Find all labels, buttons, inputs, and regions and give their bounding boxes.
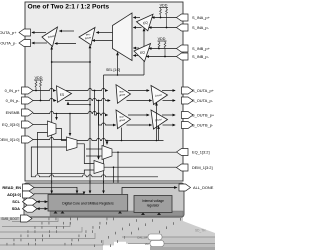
wires pre-driver A to driver A — [128, 90, 149, 92]
svg-text:S_OUTB_p-: S_OUTB_p- — [192, 123, 214, 128]
mux C — [102, 146, 112, 160]
svg-text:SCL: SCL — [12, 199, 20, 204]
shared register line loop (mux A + mux D lower inputs) — [37, 133, 94, 174]
driver A (points right) — [151, 86, 168, 105]
pre-driver (top, points left) — [79, 28, 95, 46]
driver outputs to OUTA pins — [32, 32, 46, 34]
mux B input — [33, 138, 67, 140]
regulator arrows up — [141, 212, 145, 215]
pin SDA (bidirectional hexagon) — [23, 205, 38, 212]
svg-text:SMB_BOOT: SMB_BOOT — [1, 217, 19, 221]
pin READ_EN — [23, 184, 35, 191]
mux B output routing to mux D — [77, 144, 94, 164]
pin AD[3:0] — [23, 191, 35, 198]
svg-text:OUTA_p-: OUTA_p- — [0, 41, 17, 46]
wires pre-driver to driver — [60, 30, 75, 32]
svg-text:Vin: Vin — [145, 242, 150, 246]
svg-text:regulator: regulator — [147, 204, 161, 208]
ALL_DONE wire — [122, 188, 177, 195]
mux outputs to pre-driver — [97, 32, 113, 34]
ghost tick trails — [7, 218, 181, 247]
mux select wire — [117, 53, 119, 75]
pin S_INB_p- — [177, 53, 189, 60]
pre-driver A (mid top, points right) — [116, 85, 131, 104]
EQ control horizontal — [104, 74, 145, 76]
wire 0_IN_p+ to EQ (hop over ctrl vertical) — [33, 89, 56, 91]
svg-text:ENSMB: ENSMB — [6, 110, 20, 115]
svg-text:S_OUTA_p+: S_OUTA_p+ — [192, 88, 215, 93]
pin ENSMB — [22, 109, 34, 116]
bus arrows up — [54, 211, 58, 214]
pin S_OUTB_p+ — [182, 112, 194, 119]
svg-text:VDD: VDD — [160, 4, 168, 8]
svg-text:0_IN_p-: 0_IN_p- — [6, 98, 21, 103]
svg-text:ALL_DONE: ALL_DONE — [193, 185, 214, 190]
digital core box — [48, 195, 128, 212]
svg-text:One of Two 2:1 / 1:2 Ports: One of Two 2:1 / 1:2 Ports — [28, 3, 110, 10]
ghost pin CAL wire — [122, 236, 215, 238]
svg-text:SEL [1:0]: SEL [1:0] — [106, 68, 120, 72]
wire INA- to EQ1 — [149, 27, 177, 29]
svg-text:S_OUTB_p+: S_OUTB_p+ — [192, 113, 215, 118]
svg-text:Internal voltage: Internal voltage — [142, 199, 164, 203]
svg-text:AD[3:0]: AD[3:0] — [7, 192, 22, 197]
svg-text:S_INB_p-: S_INB_p- — [192, 54, 210, 59]
pin ALL_DONE — [179, 184, 191, 191]
pin S_OUTB_p- — [182, 122, 194, 129]
svg-text:SDA: SDA — [12, 206, 20, 211]
pin DEM_1[3:2] — [177, 164, 189, 171]
driver B outputs — [162, 114, 175, 116]
pin S_INB_p+ — [177, 45, 189, 52]
pin DEM_0[1:0] — [22, 136, 34, 143]
EQ outputs fanout — [66, 89, 108, 91]
mux B — [67, 137, 78, 151]
bus bar — [50, 211, 183, 216]
EQ2 triangle — [134, 44, 151, 62]
driver (top, points left) — [42, 27, 58, 47]
pin OUTA_p+ — [19, 29, 31, 36]
EQ control vertical to EQ1 (passes behind EQ2) — [143, 29, 145, 75]
wire INB- to EQ2 — [147, 56, 177, 58]
mux B lower input loop / long bottom row — [31, 147, 158, 177]
svg-text:S_INB_p+: S_INB_p+ — [192, 46, 211, 51]
VDD termination B — [158, 37, 167, 57]
svg-text:EQ_0[3:0]: EQ_0[3:0] — [2, 122, 20, 127]
mux D — [94, 161, 104, 174]
EQ (middle, points right) — [57, 86, 72, 103]
mux C output to EQ_1 pin row — [112, 151, 177, 153]
svg-text:VDD: VDD — [158, 37, 166, 41]
svg-text:Digital Core and SMBus Registe: Digital Core and SMBus Registers — [62, 202, 114, 206]
pin SCL (bidirectional hexagon) — [23, 198, 38, 205]
EQ2 outputs to mux — [134, 47, 140, 49]
EQ1 triangle — [137, 14, 154, 31]
pin 0_IN_p+ — [22, 87, 34, 94]
mux A output to long control row y=140.5 — [56, 129, 164, 141]
svg-text:SD_TH: SD_TH — [195, 229, 206, 233]
internal voltage regulator box — [134, 196, 172, 213]
svg-text:0_IN_p+: 0_IN_p+ — [5, 88, 21, 93]
wires pre-driver B to driver B — [128, 114, 149, 116]
right gray bars — [150, 237, 215, 243]
driver ctrl verticals right — [156, 103, 158, 141]
pin S_OUTA_p- — [182, 97, 194, 104]
pin S_OUTA_p+ — [182, 87, 194, 94]
pin EQ_0[3:0] — [22, 121, 34, 128]
driver B (points right) — [151, 110, 168, 129]
wire INA+ to EQ1 — [152, 17, 177, 19]
mux A input — [33, 124, 48, 126]
driver A outputs — [162, 90, 175, 92]
white wedge top-right — [183, 217, 215, 233]
pin BOOT (ghost row) — [21, 215, 33, 222]
pin OUTA_p- — [19, 40, 31, 47]
2:1 mux trapezoid — [113, 13, 133, 61]
svg-text:DEM_0[1:0]: DEM_0[1:0] — [0, 137, 20, 142]
svg-text:S_OUTA_p-: S_OUTA_p- — [192, 98, 214, 103]
EQ1 outputs to mux — [134, 17, 141, 19]
pin S_INA_p- — [177, 24, 189, 31]
svg-text:EQ_1[3:2]: EQ_1[3:2] — [192, 150, 210, 155]
svg-text:CAL_M: CAL_M — [137, 236, 148, 240]
EQ ctrl stub — [67, 102, 69, 105]
pin S_INA_p+ — [177, 14, 189, 21]
mux D output to DEM_1 pin row — [104, 166, 177, 168]
svg-text:READ_EN: READ_EN — [2, 185, 21, 190]
svg-text:VDD: VDD — [35, 76, 43, 80]
pin 0_IN_p- — [22, 97, 34, 104]
pin EQ_1[3:2] — [177, 149, 189, 156]
mux C inputs — [86, 148, 102, 150]
svg-text:DEM_1[3:2]: DEM_1[3:2] — [192, 165, 213, 170]
svg-text:S_INA_p-: S_INA_p- — [192, 25, 210, 30]
mux A — [48, 121, 57, 137]
core top entry arrows from port verticals — [51, 181, 53, 193]
mux C sel — [106, 141, 108, 145]
svg-text:S_INA_p+: S_INA_p+ — [192, 15, 211, 20]
right rows down to core — [117, 152, 119, 193]
pre-driver B (mid bottom, points right) — [116, 110, 131, 129]
svg-text:OUTA_p+: OUTA_p+ — [0, 30, 17, 35]
ctrl horizontal y62 — [52, 61, 90, 63]
white notch bottom-middle (sheet corners) — [103, 242, 150, 250]
long verticals to digital core — [89, 45, 91, 193]
fanout drops to lower pre-driver — [95, 91, 108, 116]
wire INB+ to EQ2 — [149, 48, 177, 50]
VDD termination A — [159, 4, 168, 29]
main port block box — [25, 2, 183, 181]
VDD termination mid — [34, 76, 43, 101]
wire 0_IN_p- to EQ (hop) — [33, 99, 56, 101]
control: driver ctrl vertical x=51.7 runs to core — [51, 47, 53, 194]
